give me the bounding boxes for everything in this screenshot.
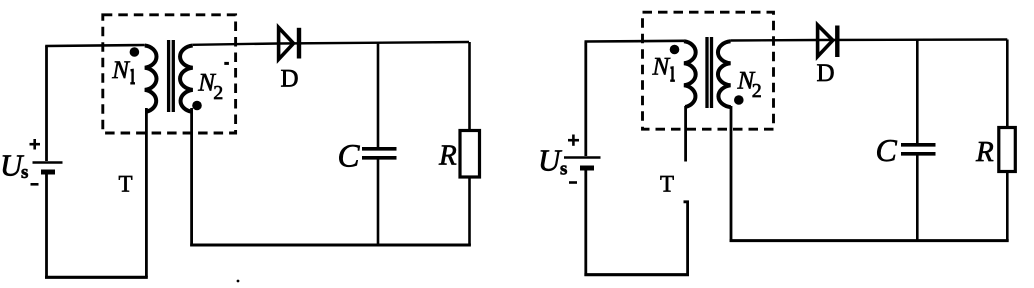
svg-text:T: T [119, 172, 133, 197]
wire: capacitor bottom lead [916, 155, 919, 240]
wire: battery negative lead (vertical) [45, 172, 48, 279]
source Us: long positive plate [564, 156, 601, 158]
winding N2 (secondary coil) [180, 46, 193, 112]
dot: N1 polarity dot [130, 47, 140, 57]
diode D (triangle) [279, 28, 294, 60]
wire: secondary winding bottom lead (vertical) [730, 106, 733, 242]
svg-text:2: 2 [213, 82, 223, 104]
dot: N2 polarity dot [734, 95, 744, 105]
wire: primary winding bottom lead (upper segment, open) [684, 106, 687, 162]
svg-text:N: N [652, 54, 671, 81]
wire: battery top to transformer primary top [586, 41, 684, 43]
svg-text:2: 2 [752, 80, 762, 102]
svg-text:D: D [281, 65, 299, 92]
svg-text:R: R [975, 136, 994, 168]
diode D (triangle) [818, 25, 833, 57]
capacitor C top plate [362, 147, 397, 151]
wire: resistor bottom lead [1006, 172, 1009, 241]
wire: battery negative lead (vertical) [584, 168, 587, 276]
dot: N1 polarity dot [670, 45, 680, 55]
wire: resistor bottom lead [468, 177, 471, 245]
transformer T1 dashed boundary box [103, 15, 236, 133]
wire: primary bottom return [584, 273, 689, 276]
resistor R body [999, 128, 1016, 172]
svg-text:D: D [817, 60, 835, 87]
capacitor C top plate [901, 143, 936, 147]
label - [569, 181, 577, 184]
svg-text:N: N [111, 57, 130, 84]
wire: secondary top to output corner [193, 42, 469, 45]
label + [30, 139, 41, 150]
capacitor C bottom plate [901, 152, 936, 156]
stray ink speck [237, 280, 240, 283]
resistor R body [460, 131, 480, 178]
winding N2 (secondary coil) [718, 41, 731, 107]
svg-text:s: s [21, 162, 28, 183]
transformer T2 dashed boundary box [643, 12, 774, 129]
wire: secondary top to output corner [731, 40, 1008, 41]
source Us: short negative plate [41, 170, 55, 175]
wire: capacitor bottom lead [377, 159, 380, 245]
diode D cathode bar [835, 26, 839, 58]
svg-text:s: s [560, 159, 567, 180]
wire: resistor top lead [468, 42, 471, 131]
winding N1 (primary coil) [145, 46, 157, 112]
wire: battery positive lead (vertical) [584, 42, 587, 157]
wire: battery positive lead (vertical) [45, 46, 48, 161]
wire: primary winding bottom lead (vertical) [145, 108, 148, 277]
svg-text:T: T [660, 171, 674, 196]
capacitor C bottom plate [362, 156, 397, 160]
wire: resistor top lead [1006, 40, 1009, 128]
wire: output bottom rail [730, 239, 1009, 242]
svg-text:C: C [338, 138, 361, 174]
svg-text:C: C [876, 132, 898, 168]
wire: capacitor top lead [916, 40, 919, 143]
transformer core (two bars) [705, 37, 708, 108]
winding N1 (primary coil) [684, 41, 696, 107]
source Us: long positive plate [33, 161, 63, 163]
wire: open lower segment of primary lead with end tick [684, 202, 688, 275]
wire: battery top to transformer primary top [47, 45, 145, 47]
wire: output bottom rail [190, 244, 471, 247]
transformer core (two bars) [167, 40, 170, 112]
wire: capacitor top lead [377, 43, 380, 148]
wire: primary bottom return [45, 276, 148, 279]
wire: secondary winding bottom lead (vertical) [190, 108, 193, 246]
source Us: short negative plate [580, 166, 594, 171]
diode D cathode bar [297, 28, 301, 59]
label - [31, 183, 39, 186]
dot: N2 polarity dot [192, 101, 202, 111]
label + [568, 135, 579, 146]
svg-text:R: R [438, 140, 457, 172]
stray ink dash [224, 62, 229, 65]
